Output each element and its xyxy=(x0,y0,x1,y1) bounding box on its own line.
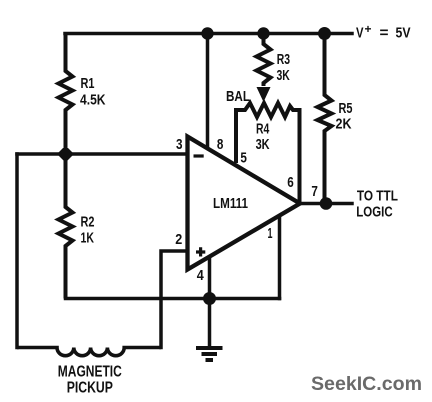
node dot V+ rail junction xyxy=(318,27,331,40)
wire left outer vertical xyxy=(15,154,19,348)
node dot R3 rail junction xyxy=(257,27,269,39)
wire node line to inverting input pin 3 xyxy=(17,152,188,156)
wire R2 bottom to ground node xyxy=(66,297,280,301)
svg-text:V: V xyxy=(356,25,364,42)
inductor magnetic pickup xyxy=(17,348,161,356)
wire pin 8 to rail xyxy=(206,34,210,149)
svg-text:3K: 3K xyxy=(277,67,290,84)
svg-text:7: 7 xyxy=(311,183,318,200)
svg-text:5V: 5V xyxy=(396,25,411,42)
op-amp U1 LM111 triangle xyxy=(188,137,301,270)
svg-text:+: + xyxy=(365,22,372,36)
svg-text:4: 4 xyxy=(197,267,205,284)
wire pin 1 drop xyxy=(278,215,282,299)
minus sign inverting input xyxy=(194,154,204,157)
svg-text:8: 8 xyxy=(217,136,224,153)
svg-text:4.5K: 4.5K xyxy=(80,91,106,108)
svg-text:LM111: LM111 xyxy=(213,195,248,212)
R3 wiper arrow xyxy=(257,87,271,102)
svg-text:R3: R3 xyxy=(277,51,290,68)
svg-text:PICKUP: PICKUP xyxy=(67,380,113,397)
svg-text:R1: R1 xyxy=(81,75,95,92)
node dot ground junction xyxy=(203,292,216,305)
svg-text:MAGNETIC: MAGNETIC xyxy=(58,364,122,381)
wire ground stem xyxy=(208,299,212,347)
potentiometer R4 xyxy=(236,103,300,202)
resistor R5 xyxy=(318,34,332,204)
svg-text:3: 3 xyxy=(176,136,183,153)
wire pin 2 jog xyxy=(161,251,188,348)
svg-text:TO TTL: TO TTL xyxy=(357,189,398,205)
wire top supply rail xyxy=(65,32,352,36)
wire pin 4 drop xyxy=(208,256,212,299)
ground xyxy=(196,348,223,360)
svg-text:2K: 2K xyxy=(336,115,352,132)
svg-text:2: 2 xyxy=(175,231,182,248)
svg-text:SeekIC.com: SeekIC.com xyxy=(311,373,422,395)
node A summing junction diamond xyxy=(57,146,74,163)
node dot output xyxy=(320,197,333,210)
resistor R1 xyxy=(59,34,73,148)
svg-text:1K: 1K xyxy=(81,230,95,247)
plus sign non-inverting input xyxy=(196,247,205,256)
svg-text:3K: 3K xyxy=(256,136,270,153)
svg-text:R2: R2 xyxy=(81,213,95,230)
wire output xyxy=(300,202,352,206)
svg-text:LOGIC: LOGIC xyxy=(356,205,393,221)
svg-text:=: = xyxy=(380,25,389,42)
svg-text:5: 5 xyxy=(240,150,247,167)
svg-text:BAL: BAL xyxy=(226,88,250,105)
svg-text:1: 1 xyxy=(268,225,273,242)
svg-text:6: 6 xyxy=(287,174,294,191)
node dot pin8 rail junction xyxy=(201,27,213,39)
resistor R3 xyxy=(257,34,271,87)
resistor R2 xyxy=(59,154,73,299)
